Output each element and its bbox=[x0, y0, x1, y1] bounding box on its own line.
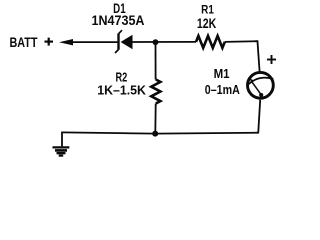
meter M1 body bbox=[248, 72, 274, 98]
value 1K-1.5K bbox=[97, 83, 146, 98]
node BATT polarity + bbox=[45, 38, 54, 46]
node BATT label bbox=[10, 34, 38, 50]
wire node A to R2 bbox=[155, 42, 157, 79]
value 1N4735A bbox=[92, 13, 145, 28]
svg-text:BATT: BATT bbox=[10, 34, 38, 50]
label M1 bbox=[214, 66, 230, 81]
label D1 bbox=[113, 1, 126, 16]
wire arrow to BATT bbox=[59, 39, 117, 45]
wire R2 to bottom node bbox=[154, 104, 156, 134]
svg-text:1K–1.5K: 1K–1.5K bbox=[97, 83, 146, 98]
wire diode to node A bbox=[133, 41, 197, 43]
value 12K bbox=[197, 16, 217, 31]
svg-text:0–1mA: 0–1mA bbox=[205, 82, 240, 97]
diode D1 anode triangle bbox=[121, 35, 133, 49]
wire bottom left segment bbox=[62, 132, 156, 133]
wire meter to bottom right corner bbox=[258, 100, 260, 133]
svg-text:1N4735A: 1N4735A bbox=[92, 13, 145, 28]
label R1 bbox=[201, 3, 214, 17]
svg-text:M1: M1 bbox=[214, 66, 230, 81]
wire R1 to top right corner bbox=[225, 40, 258, 43]
label R2 bbox=[116, 70, 128, 84]
wire bottom right segment bbox=[156, 132, 259, 135]
junction node A bbox=[153, 39, 159, 45]
value 0-1mA bbox=[205, 82, 240, 97]
wire ground stub bbox=[61, 132, 63, 147]
diode D1 zener cathode bar bbox=[115, 30, 122, 53]
svg-text:12K: 12K bbox=[197, 16, 217, 31]
resistor R1 bbox=[196, 36, 225, 48]
ground bbox=[53, 147, 70, 155]
junction node B bbox=[152, 131, 158, 137]
wire corner down to meter bbox=[257, 40, 259, 71]
svg-text:R1: R1 bbox=[201, 3, 214, 17]
meter M1 polarity + bbox=[267, 55, 276, 64]
resistor R2 bbox=[151, 80, 160, 104]
